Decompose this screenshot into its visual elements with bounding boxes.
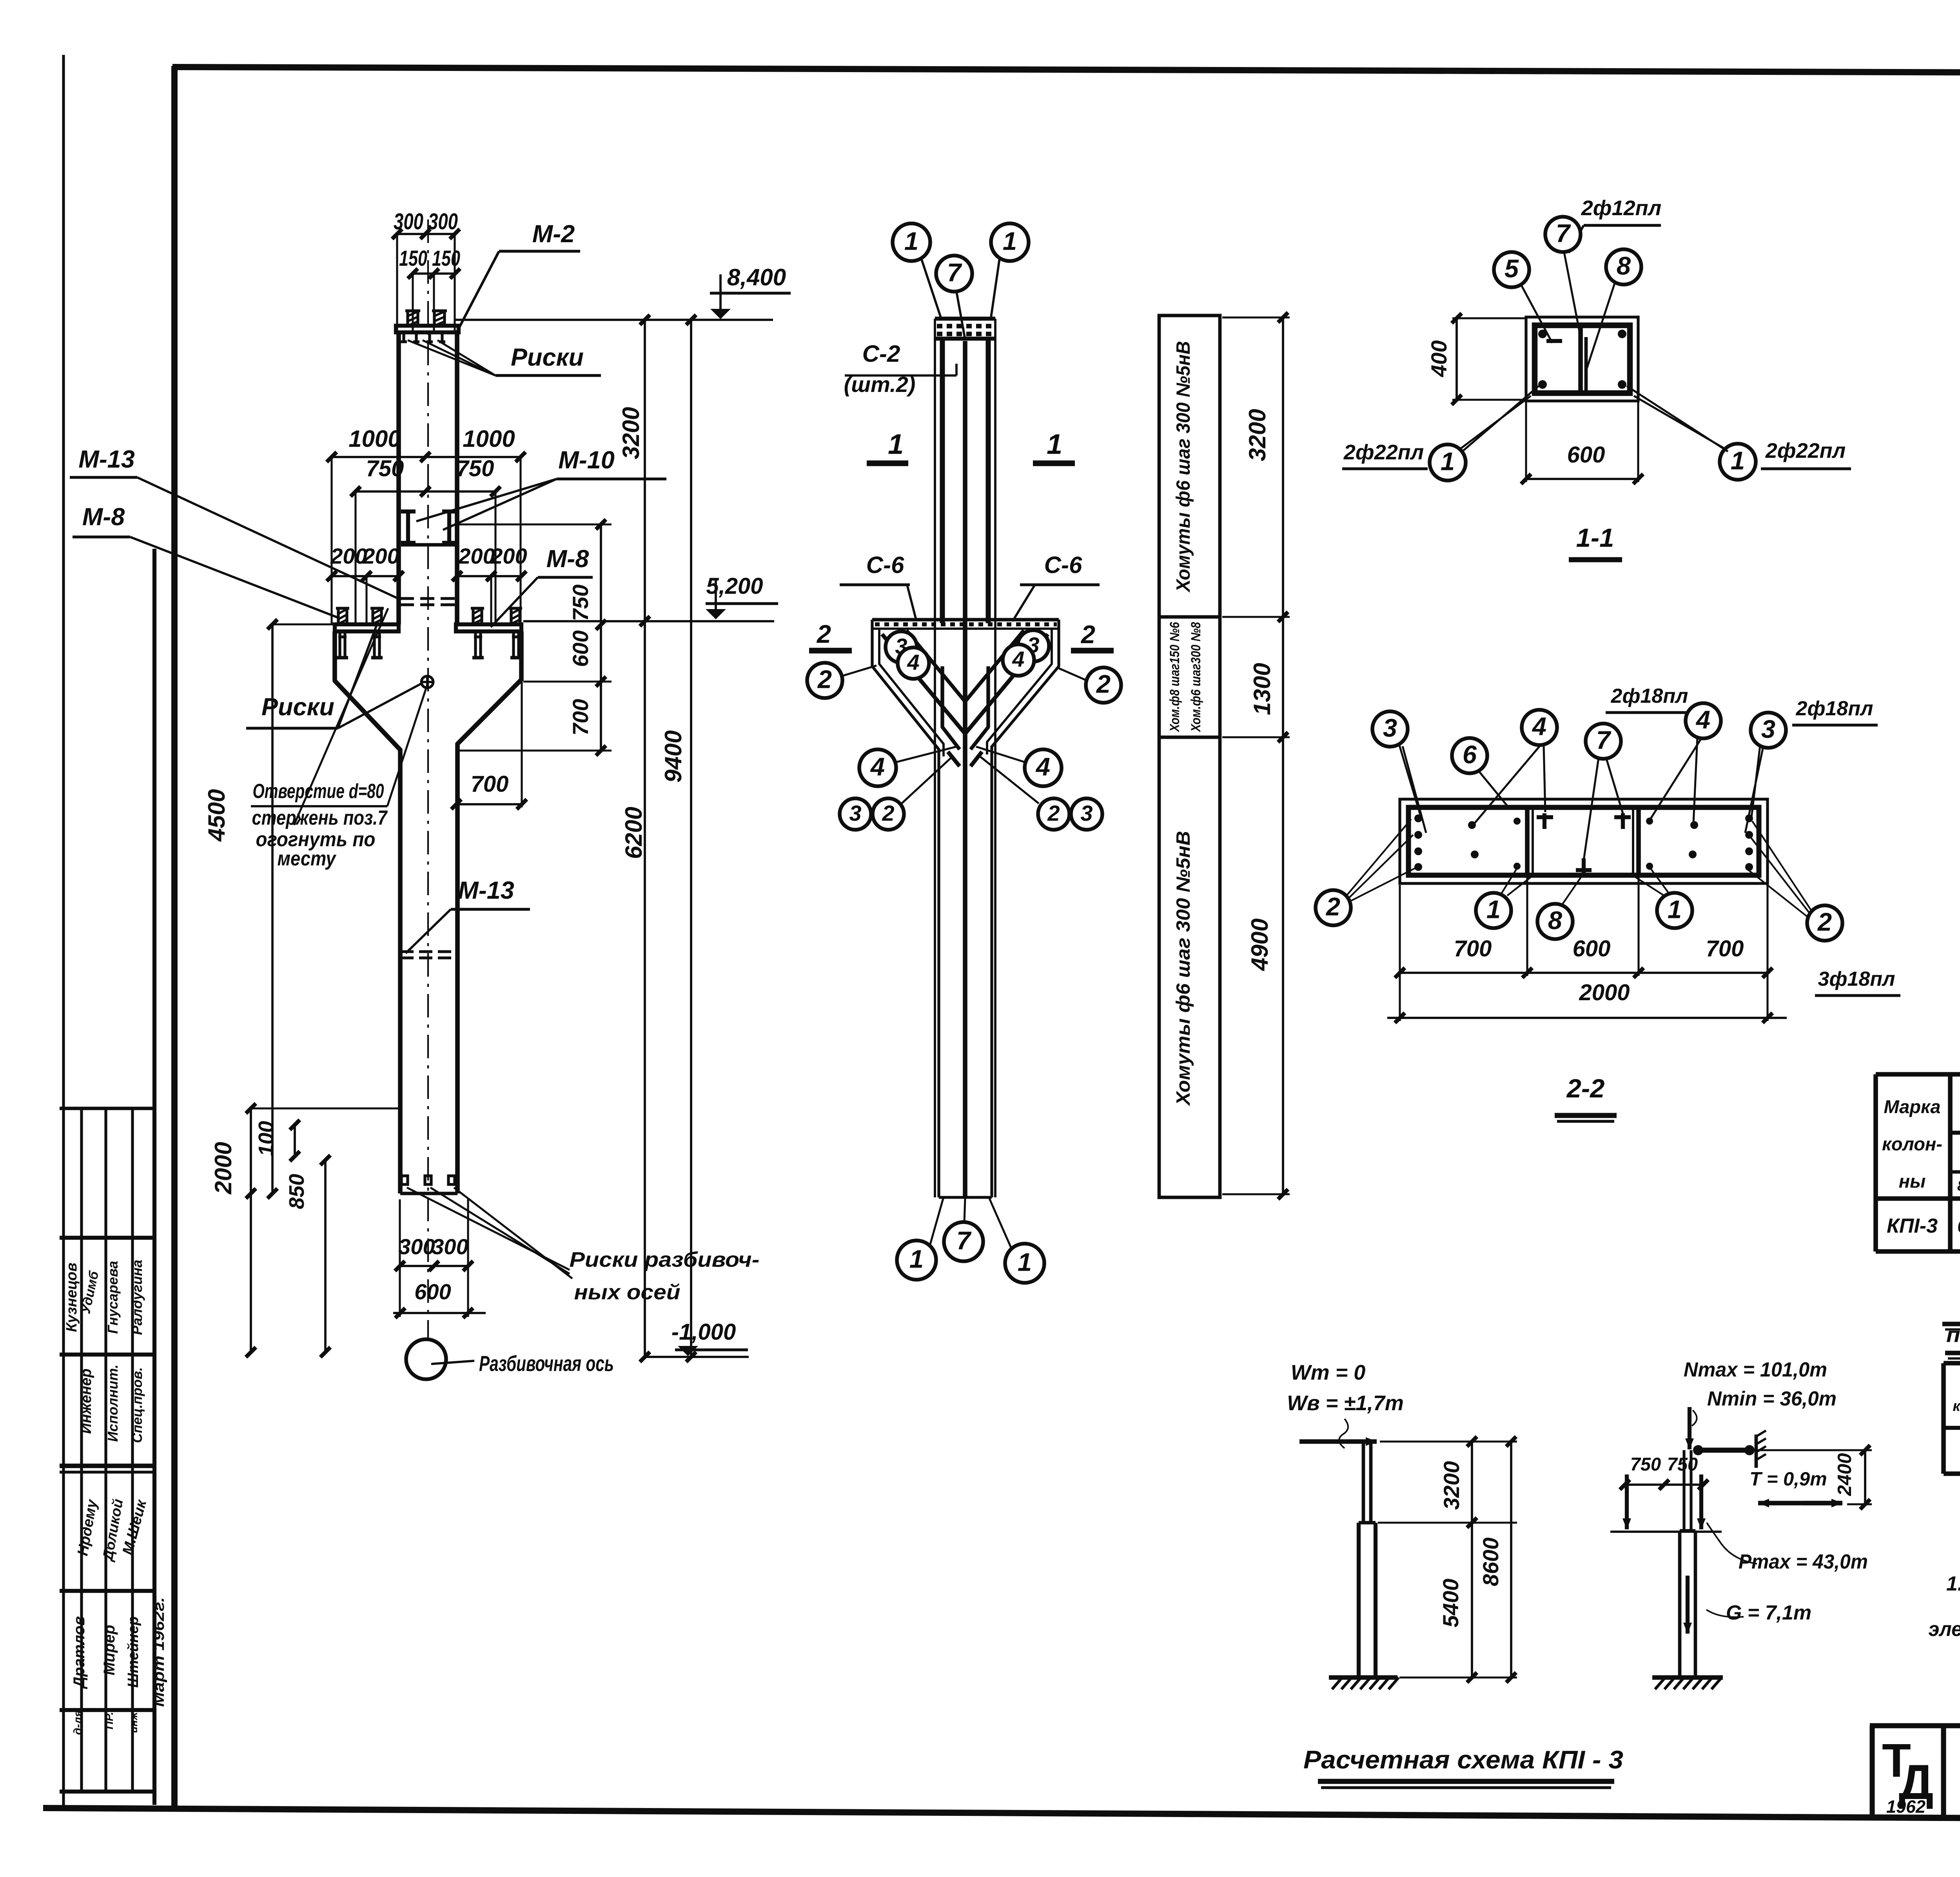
svg-text:4: 4 xyxy=(1035,753,1050,781)
svg-text:200: 200 xyxy=(490,544,527,568)
circled 2 left of console xyxy=(807,663,842,698)
svg-text:200: 200 xyxy=(362,544,399,568)
svg-text:Марка: Марка xyxy=(1884,1096,1940,1117)
svg-text:2-2: 2-2 xyxy=(1566,1074,1605,1103)
svg-text:150: 150 xyxy=(432,246,460,270)
left console anchor studs xyxy=(338,608,347,624)
circled 6 top xyxy=(1452,738,1487,773)
svg-text:1-1: 1-1 xyxy=(1576,523,1614,553)
svg-text:М-13: М-13 xyxy=(458,877,514,904)
scheme right ground hatch xyxy=(1652,1675,1723,1680)
svg-text:2400: 2400 xyxy=(1834,1453,1855,1496)
svg-text:700: 700 xyxy=(471,771,509,797)
svg-text:5: 5 xyxy=(1504,254,1519,283)
long diagonal leader to hole xyxy=(294,608,388,825)
section 1-1 outer outline xyxy=(1526,317,1638,401)
svg-text:4: 4 xyxy=(870,753,885,781)
svg-text:2: 2 xyxy=(816,620,831,648)
M-13 dashed embed line upper xyxy=(400,597,458,600)
circled 8 section 1-1 xyxy=(1606,249,1641,285)
svg-text:2ф18пл: 2ф18пл xyxy=(1796,697,1873,720)
svg-text:3: 3 xyxy=(1761,715,1775,744)
svg-text:2ф22пл: 2ф22пл xyxy=(1765,439,1846,462)
svg-text:1000: 1000 xyxy=(348,426,401,452)
svg-text:Кузнецов: Кузнецов xyxy=(64,1262,80,1332)
stirrup bar dividers xyxy=(1159,615,1220,619)
column elevation top plate M-2 xyxy=(396,326,459,332)
svg-text:4: 4 xyxy=(1695,705,1710,734)
svg-text:3: 3 xyxy=(1383,714,1397,742)
svg-text:4: 4 xyxy=(1532,712,1546,741)
svg-text:2ф12пл: 2ф12пл xyxy=(1581,196,1661,220)
svg-text:3: 3 xyxy=(849,801,861,825)
riski marks under plate xyxy=(402,333,405,342)
svg-text:М-8: М-8 xyxy=(82,503,125,531)
console inner outline middle view xyxy=(879,629,944,756)
section 2-2 outer outline xyxy=(1400,799,1768,883)
svg-text:С-2: С-2 xyxy=(862,341,900,367)
svg-text:3ф18пл: 3ф18пл xyxy=(1818,968,1895,990)
svg-text:Т = 0,9т: Т = 0,9т xyxy=(1749,1469,1827,1490)
svg-text:7: 7 xyxy=(1556,219,1571,248)
svg-text:1: 1 xyxy=(888,429,904,460)
svg-text:1: 1 xyxy=(1486,895,1501,924)
svg-text:2: 2 xyxy=(817,665,832,694)
svg-text:700: 700 xyxy=(1706,936,1744,961)
scheme left column ground hatch xyxy=(1329,1675,1397,1680)
svg-text:Хом.ф8 шаг150 №6: Хом.ф8 шаг150 №6 xyxy=(1167,622,1182,733)
svg-text:Хомуты ф6 шаг 300 №5нВ: Хомуты ф6 шаг 300 №5нВ xyxy=(1173,341,1194,593)
title block TD logo box xyxy=(1870,1726,1875,1815)
svg-text:7: 7 xyxy=(1596,726,1612,754)
svg-text:Расчетная схема КПI - 3: Расчетная схема КПI - 3 xyxy=(1303,1745,1623,1774)
svg-text:750: 750 xyxy=(456,456,494,481)
svg-text:2: 2 xyxy=(1080,620,1095,649)
svg-text:Гнусарева: Гнусарева xyxy=(105,1261,121,1334)
circled bar 1 top-left xyxy=(893,223,930,261)
circled 2 below-left with leaders xyxy=(1316,890,1351,925)
svg-text:1: 1 xyxy=(1003,227,1017,256)
svg-text:2000: 2000 xyxy=(1579,980,1630,1005)
svg-text:9400: 9400 xyxy=(660,730,686,782)
svg-text:4900: 4900 xyxy=(1247,918,1273,971)
svg-text:6,2: 6,2 xyxy=(1957,1216,1960,1237)
svg-text:4: 4 xyxy=(907,650,919,675)
svg-text:2: 2 xyxy=(1047,801,1060,825)
scheme right column body xyxy=(1682,1450,1685,1531)
svg-text:Мирер: Мирер xyxy=(101,1625,118,1676)
svg-text:600: 600 xyxy=(414,1279,451,1304)
title block top line xyxy=(1870,1723,1960,1728)
svg-text:600: 600 xyxy=(568,630,593,667)
svg-text:150: 150 xyxy=(399,246,427,270)
svg-text:600: 600 xyxy=(1573,936,1611,961)
svg-text:2: 2 xyxy=(882,801,894,825)
svg-text:Nmax = 101,0т: Nmax = 101,0т xyxy=(1684,1358,1827,1381)
section 1-1 stirrup rect xyxy=(1535,325,1630,393)
console outline middle view left xyxy=(872,620,939,1197)
riski marks at column bottom xyxy=(401,1176,408,1184)
svg-text:2: 2 xyxy=(1096,670,1111,698)
svg-text:700: 700 xyxy=(1454,936,1492,961)
sheet frame top border xyxy=(172,67,1960,74)
circled 1 below right xyxy=(1657,893,1692,928)
rebar column vertical bars xyxy=(934,319,936,1197)
section 1-1 middle rods 7 8 xyxy=(1578,327,1583,392)
scheme left dims 3200 5400 8600 xyxy=(1471,1442,1473,1678)
steel table outer and group verticals xyxy=(1873,1074,1878,1251)
svg-text:4500: 4500 xyxy=(203,789,230,841)
circled 3 console left xyxy=(886,631,917,663)
svg-text:4: 4 xyxy=(1012,647,1024,671)
left console bolts below xyxy=(338,631,341,658)
svg-text:3200: 3200 xyxy=(1244,409,1270,461)
M-10 I-beam embed inside column xyxy=(401,510,416,513)
svg-text:Ралдугина: Ралдугина xyxy=(129,1260,145,1335)
stirrup bar rectangle xyxy=(1159,316,1220,1197)
sheet frame left border xyxy=(171,66,178,1809)
column axis dash-dot xyxy=(427,219,429,1340)
svg-text:инж: инж xyxy=(128,1712,140,1733)
svg-text:ны: ны xyxy=(1899,1171,1926,1191)
svg-text:1: 1 xyxy=(904,227,918,256)
svg-text:8: 8 xyxy=(1548,906,1563,935)
svg-text:5400: 5400 xyxy=(1438,1579,1463,1628)
svg-text:Март 1962г.: Март 1962г. xyxy=(151,1597,167,1707)
console inner rebar mesh V-bars xyxy=(882,634,1048,734)
left title strip verticals xyxy=(80,1108,83,1792)
svg-text:Nmin = 36,0т: Nmin = 36,0т xyxy=(1707,1387,1837,1410)
svg-text:Исполнит.: Исполнит. xyxy=(105,1364,121,1442)
scheme left column top bar with arrow xyxy=(1299,1439,1377,1444)
svg-text:М-2: М-2 xyxy=(532,220,575,248)
circled 3 console right xyxy=(1018,630,1049,662)
svg-text:300: 300 xyxy=(432,1234,468,1259)
svg-text:Спец.пров.: Спец.пров. xyxy=(130,1367,145,1443)
section 2-2 right cell bars xyxy=(1745,814,1753,822)
right console bolts below xyxy=(474,631,477,658)
svg-text:показатели на одну колонну: показатели на одну колонну xyxy=(1946,1323,1960,1347)
svg-text:Штейнер: Штейнер xyxy=(125,1616,142,1688)
svg-text:300: 300 xyxy=(398,1234,435,1259)
svg-text:200: 200 xyxy=(330,544,367,568)
scheme right top node with arrows xyxy=(1688,1407,1691,1449)
svg-text:Риски: Риски xyxy=(511,344,584,371)
svg-text:7: 7 xyxy=(956,1226,972,1255)
rebar column top cap hatch xyxy=(935,317,995,321)
circled 4 console left xyxy=(898,647,929,679)
column bottom edge xyxy=(400,1192,457,1195)
circled bar 1 top-right xyxy=(991,223,1029,261)
circled 4 top-right xyxy=(1686,703,1721,738)
circled 4 console right xyxy=(1003,644,1034,676)
svg-text:700: 700 xyxy=(568,699,593,735)
svg-text:Wв = ±1,7т: Wв = ±1,7т xyxy=(1287,1391,1404,1415)
svg-text:1: 1 xyxy=(1047,429,1062,460)
label 2f22pl right circle 1 xyxy=(1720,444,1756,480)
axis target symbol xyxy=(421,676,433,688)
svg-text:3: 3 xyxy=(1080,801,1093,825)
scheme left column body xyxy=(1362,1442,1365,1523)
circled 4 below console right xyxy=(1025,749,1062,786)
circled 2 right of console xyxy=(1086,667,1121,703)
svg-text:1: 1 xyxy=(909,1245,924,1273)
svg-text:3200: 3200 xyxy=(1439,1461,1464,1510)
svg-text:7: 7 xyxy=(947,258,962,287)
svg-text:300: 300 xyxy=(428,209,458,234)
M-13 dashed embed line lower xyxy=(400,950,457,953)
svg-text:Pmax = 43,0т: Pmax = 43,0т xyxy=(1739,1551,1868,1573)
svg-text:Wт = 0: Wт = 0 xyxy=(1291,1361,1366,1384)
svg-text:С-6: С-6 xyxy=(1044,552,1082,578)
svg-text:колон-: колон- xyxy=(1882,1133,1942,1154)
circled bar 7 top xyxy=(936,256,972,292)
svg-text:2ф22пл: 2ф22пл xyxy=(1343,441,1424,464)
svg-text:400: 400 xyxy=(1426,340,1451,377)
section 2-2 stirrup rect xyxy=(1408,807,1759,875)
svg-text:1: 1 xyxy=(1018,1248,1032,1277)
svg-text:200: 200 xyxy=(458,544,495,568)
left console outline and taper xyxy=(335,631,400,1193)
survey axis circle symbol xyxy=(406,1339,446,1379)
circled 4 below console left xyxy=(859,749,896,786)
svg-text:850: 850 xyxy=(285,1174,309,1209)
svg-text:колонны: колонны xyxy=(1953,1398,1960,1415)
svg-text:6: 6 xyxy=(1463,740,1477,769)
svg-text:месту: месту xyxy=(278,847,337,870)
right console anchor studs xyxy=(473,608,482,624)
svg-text:2: 2 xyxy=(1817,908,1832,936)
svg-text:КПI-3: КПI-3 xyxy=(1887,1215,1938,1237)
svg-text:8,400: 8,400 xyxy=(727,264,786,290)
svg-text:Хомуты ф6 шаг 300 №5нВ: Хомуты ф6 шаг 300 №5нВ xyxy=(1173,831,1194,1106)
svg-text:М-13: М-13 xyxy=(78,446,135,473)
svg-text:д-ля: д-ля xyxy=(72,1710,84,1735)
svg-text:2: 2 xyxy=(1325,892,1340,921)
svg-text:750: 750 xyxy=(1667,1454,1698,1474)
svg-text:1: 1 xyxy=(1441,447,1455,476)
svg-text:1: 1 xyxy=(1731,446,1745,475)
svg-text:G = 7,1т: G = 7,1т xyxy=(1726,1601,1811,1624)
left console top plate xyxy=(335,624,399,631)
svg-text:С-6: С-6 xyxy=(866,552,904,578)
circled 5 section 1-1 xyxy=(1494,252,1529,287)
svg-text:600: 600 xyxy=(1567,442,1605,468)
svg-text:2000: 2000 xyxy=(210,1142,236,1194)
svg-text:1962: 1962 xyxy=(1886,1797,1926,1817)
circled 2 below-right with leaders xyxy=(1807,905,1842,941)
section 2-2 middle cell hooks xyxy=(1543,813,1546,829)
svg-text:Хом.ф6 шаг300 №8: Хом.ф6 шаг300 №8 xyxy=(1189,622,1203,733)
right console outline and taper xyxy=(457,631,521,1193)
svg-text:2ф18пл: 2ф18пл xyxy=(1611,685,1688,707)
svg-text:-1,000: -1,000 xyxy=(671,1319,736,1345)
svg-text:ПР.: ПР. xyxy=(103,1712,116,1730)
svg-text:750: 750 xyxy=(366,456,404,481)
section 2-2 left cell bars xyxy=(1414,814,1422,822)
svg-text:ных осей: ных осей xyxy=(574,1280,681,1304)
svg-text:1: 1 xyxy=(1668,895,1682,924)
svg-text:элементами помещены на листе 3: элементами помещены на листе 39. xyxy=(1929,1618,1960,1641)
sheet outer edge line left xyxy=(62,55,65,1809)
scheme right G label with arrow xyxy=(1686,1576,1690,1634)
svg-text:1300: 1300 xyxy=(1249,663,1275,715)
console top plate with hatch middle view xyxy=(872,618,1059,622)
circled 7 top xyxy=(1586,724,1621,759)
circled 1 below with leaders xyxy=(1476,893,1511,928)
column elevation body upper xyxy=(396,332,401,624)
circled 4 top-left xyxy=(1522,710,1557,745)
svg-text:Инженер: Инженер xyxy=(78,1369,94,1434)
tech-econ table grid xyxy=(1941,1363,1946,1474)
sheet frame bottom border xyxy=(43,1808,1960,1822)
svg-text:1000: 1000 xyxy=(463,426,515,452)
svg-text:750: 750 xyxy=(568,584,593,621)
circled 8 below xyxy=(1537,904,1573,939)
scheme right P arrows xyxy=(1625,1474,1629,1529)
svg-text:100: 100 xyxy=(254,1121,278,1156)
console outline middle view right xyxy=(992,620,1059,1197)
section 1-1 corner bars xyxy=(1538,330,1547,338)
circled 2 and 3 lower right xyxy=(1038,798,1069,830)
svg-text:3200: 3200 xyxy=(618,407,644,459)
dim 4900 tall line near section 2-2 top tick xyxy=(1282,741,1284,742)
steel table horizontals xyxy=(1876,1072,1960,1077)
svg-text:1. Детали колонн с закладны: 1. Детали колонн с закладными xyxy=(1946,1572,1960,1595)
svg-text:8: 8 xyxy=(1617,252,1631,280)
circled 3 top far-left xyxy=(1372,711,1408,747)
svg-text:6200: 6200 xyxy=(621,807,647,859)
right console top plate xyxy=(456,624,521,631)
svg-text:М-10: М-10 xyxy=(558,446,615,474)
anchor bolt studs on top plate xyxy=(408,311,418,326)
svg-text:Риски разбивоч-: Риски разбивоч- xyxy=(570,1248,760,1271)
circled 3 top-right xyxy=(1751,713,1786,748)
circled 3 and 2 lower left xyxy=(840,798,871,830)
section 2-2 cell dividers xyxy=(1525,807,1530,875)
left title strip horizontal dividers xyxy=(60,1107,154,1110)
svg-text:М-8: М-8 xyxy=(546,545,589,573)
svg-text:Дратлов: Дратлов xyxy=(71,1616,88,1689)
stirrup dim line with 3200 1300 4900 xyxy=(1282,317,1284,1194)
svg-text:Разбивочная ось: Разбивочная ось xyxy=(479,1351,614,1376)
rebar column bottom circles 1 7 1 xyxy=(939,1196,992,1199)
svg-text:8600: 8600 xyxy=(1478,1538,1503,1587)
svg-text:8пл: 8пл xyxy=(1957,1178,1960,1194)
svg-text:750: 750 xyxy=(1630,1454,1661,1474)
